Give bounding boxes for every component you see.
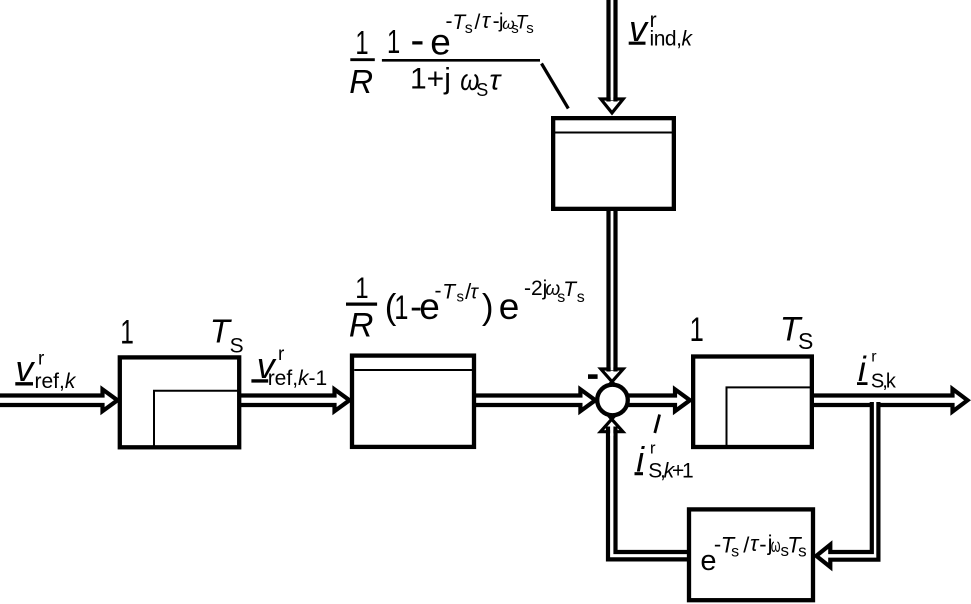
svg-text:1: 1 [355, 25, 368, 62]
svg-text:ref,k-1: ref,k-1 [268, 367, 328, 390]
svg-text:S: S [476, 80, 488, 100]
svg-text:-: - [410, 16, 424, 63]
svg-text:s: s [731, 544, 739, 561]
svg-text:s: s [465, 20, 473, 37]
svg-text:S: S [230, 334, 244, 357]
svg-text:S: S [798, 328, 813, 354]
svg-text:1: 1 [387, 24, 400, 61]
svg-text:1: 1 [355, 271, 368, 305]
svg-text:T: T [442, 281, 457, 304]
svg-text:-: - [759, 532, 766, 557]
svg-text:1+j: 1+j [410, 63, 451, 96]
svg-text:v: v [15, 348, 35, 389]
svg-text:-: - [435, 280, 442, 303]
svg-text:r: r [650, 438, 656, 457]
svg-text:s: s [526, 20, 534, 37]
svg-text:/: / [475, 11, 481, 34]
svg-text:R: R [349, 63, 373, 100]
svg-text:ω: ω [771, 536, 781, 557]
svg-text:i: i [636, 441, 645, 480]
svg-text:1: 1 [690, 312, 704, 349]
svg-text:s: s [577, 289, 585, 306]
svg-text:r: r [38, 349, 45, 370]
svg-text:s: s [457, 288, 465, 305]
svg-text:-2j: -2j [524, 277, 547, 300]
svg-text:ind,k: ind,k [650, 28, 694, 51]
svg-text:r: r [871, 348, 877, 365]
svg-text:v: v [629, 8, 649, 49]
svg-text:1: 1 [120, 314, 134, 352]
svg-text:s: s [798, 542, 807, 561]
svg-text:S,k: S,k [871, 371, 897, 393]
svg-text:ref,k: ref,k [35, 370, 77, 393]
svg-text:R: R [349, 306, 374, 344]
svg-text:e: e [499, 286, 520, 327]
svg-text:r: r [278, 344, 285, 365]
svg-text:): ) [482, 288, 494, 327]
svg-text:i: i [858, 350, 867, 389]
svg-text:1: 1 [394, 289, 408, 326]
svg-text:S,k+1: S,k+1 [648, 459, 694, 482]
